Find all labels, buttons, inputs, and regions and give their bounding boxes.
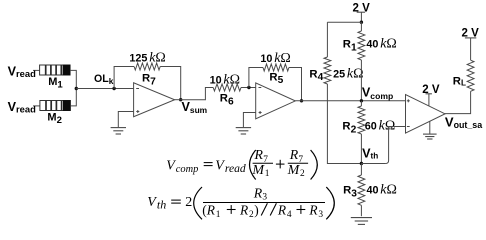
svg-text:kΩ: kΩ xyxy=(149,50,166,65)
svg-text:R7: R7 xyxy=(142,73,156,88)
svg-text:V: V xyxy=(147,195,157,210)
svg-text:R: R xyxy=(254,147,264,162)
svg-text:R: R xyxy=(239,202,248,217)
svg-text:OLk: OLk xyxy=(94,73,114,86)
svg-text:V: V xyxy=(215,158,225,173)
svg-text:R: R xyxy=(277,202,286,217)
svg-text:comp: comp xyxy=(176,164,199,175)
svg-text:kΩ: kΩ xyxy=(380,37,397,52)
svg-text:R6: R6 xyxy=(220,93,234,108)
svg-text:M: M xyxy=(251,163,265,178)
svg-text:Vread: Vread xyxy=(8,100,36,114)
svg-text:25: 25 xyxy=(333,69,345,81)
svg-text:2 V: 2 V xyxy=(353,2,371,14)
svg-text:4: 4 xyxy=(287,210,292,220)
svg-text:40: 40 xyxy=(366,39,378,51)
svg-text:M2: M2 xyxy=(47,112,62,127)
svg-text:M: M xyxy=(287,163,301,178)
svg-text:40: 40 xyxy=(367,185,379,197)
svg-text:R3: R3 xyxy=(343,185,357,200)
svg-text:th: th xyxy=(157,198,166,212)
svg-text:V: V xyxy=(166,158,176,173)
svg-text:R1: R1 xyxy=(343,39,357,54)
svg-text:kΩ: kΩ xyxy=(380,183,397,198)
svg-text:1: 1 xyxy=(216,210,221,220)
svg-text:125: 125 xyxy=(129,52,147,64)
svg-text:R: R xyxy=(289,147,299,162)
svg-text:R5: R5 xyxy=(269,71,283,86)
svg-text:10: 10 xyxy=(210,74,222,86)
svg-text:RL: RL xyxy=(453,76,466,88)
svg-text:R2: R2 xyxy=(342,121,356,136)
svg-text:M1: M1 xyxy=(48,76,63,91)
svg-text:2 V: 2 V xyxy=(462,27,480,39)
svg-text:3: 3 xyxy=(318,210,323,220)
svg-text:10: 10 xyxy=(260,53,272,65)
svg-text:read: read xyxy=(225,162,246,175)
svg-text:1: 1 xyxy=(265,169,270,179)
svg-text:Vout_sa: Vout_sa xyxy=(445,115,482,131)
svg-text:Vth: Vth xyxy=(362,146,378,160)
svg-text:Vread: Vread xyxy=(8,65,36,79)
svg-text:Vcomp: Vcomp xyxy=(362,86,393,101)
svg-text:3: 3 xyxy=(262,193,267,203)
svg-text:60: 60 xyxy=(365,121,377,133)
svg-text:kΩ: kΩ xyxy=(223,72,240,87)
svg-text:2 V: 2 V xyxy=(422,84,440,96)
svg-text:R4: R4 xyxy=(309,68,323,83)
svg-text:R: R xyxy=(206,202,215,217)
svg-text:R: R xyxy=(308,202,317,217)
svg-text:2: 2 xyxy=(185,195,192,210)
svg-text:Vsum: Vsum xyxy=(182,100,208,115)
svg-text:2: 2 xyxy=(300,169,305,179)
svg-text:R: R xyxy=(253,185,263,200)
svg-text:kΩ: kΩ xyxy=(274,51,291,66)
svg-text:): ) xyxy=(254,202,258,217)
